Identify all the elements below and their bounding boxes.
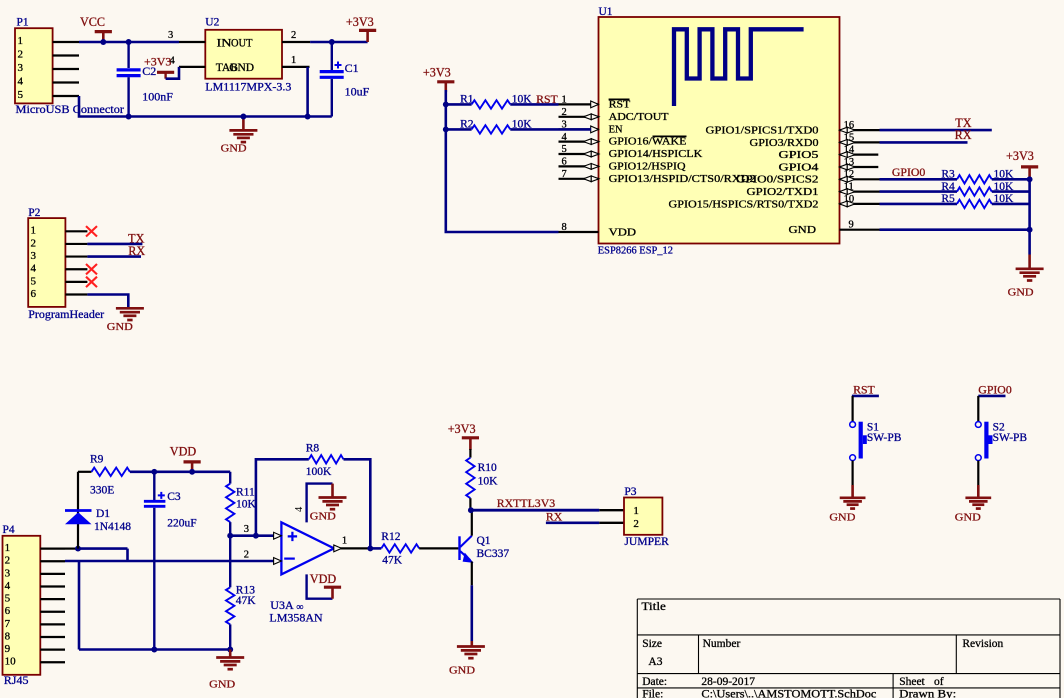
svg-text:7: 7 bbox=[562, 169, 567, 180]
svg-text:10K: 10K bbox=[994, 169, 1015, 181]
capacitor C1 bbox=[329, 39, 335, 45]
svg-text:9: 9 bbox=[849, 220, 854, 231]
svg-text:10K: 10K bbox=[994, 193, 1015, 205]
wire R11 to R13 bbox=[229, 536, 231, 588]
antenna meander inside U1 bbox=[674, 29, 804, 106]
U1 pin 13 GPIO4 bbox=[840, 166, 879, 168]
svg-text:5: 5 bbox=[31, 275, 37, 287]
svg-text:Q1: Q1 bbox=[477, 535, 491, 547]
U1 pin 2 ADC/TOUT bbox=[559, 116, 599, 118]
wire VDD rail bbox=[154, 470, 230, 473]
svg-text:2: 2 bbox=[291, 30, 296, 41]
svg-text:GPIO16/WAKE: GPIO16/WAKE bbox=[609, 137, 687, 148]
wire opamp non-inverting input bbox=[230, 534, 273, 537]
svg-text:RXTTL3V3: RXTTL3V3 bbox=[497, 496, 555, 510]
U1 pin 12 GPIO0/SPICS2 bbox=[840, 178, 880, 180]
svg-text:1: 1 bbox=[562, 95, 567, 106]
connector P1 MicroUSB bbox=[15, 28, 53, 103]
U1 pin 6 GPIO12/HSPIQ bbox=[559, 165, 599, 167]
svg-text:2: 2 bbox=[562, 107, 567, 118]
svg-text:10uF: 10uF bbox=[345, 84, 370, 98]
svg-text:LM1117MPX-3.3: LM1117MPX-3.3 bbox=[205, 80, 291, 94]
junction bus GND bbox=[1027, 227, 1033, 233]
svg-text:GND: GND bbox=[107, 321, 133, 333]
svg-text:330E: 330E bbox=[90, 485, 114, 497]
svg-text:U2: U2 bbox=[205, 17, 219, 29]
resistor R9 330E bbox=[78, 471, 92, 473]
svg-text:C3: C3 bbox=[167, 491, 181, 503]
svg-text:3: 3 bbox=[31, 250, 37, 262]
junction R13 bottom bbox=[227, 647, 233, 653]
svg-text:GND: GND bbox=[789, 225, 817, 236]
wire P2 pin6 to GND bbox=[87, 295, 128, 309]
svg-text:GPIO4: GPIO4 bbox=[779, 162, 820, 173]
overline RST bbox=[609, 98, 630, 100]
svg-text:Revision: Revision bbox=[962, 638, 1003, 650]
wire U2 OUT to +3V3 bbox=[310, 41, 368, 44]
resistor R13 47K bbox=[226, 587, 234, 624]
svg-text:RX: RX bbox=[955, 128, 972, 142]
junction output node bbox=[367, 545, 373, 551]
svg-text:C1: C1 bbox=[345, 61, 359, 75]
svg-text:1N4148: 1N4148 bbox=[94, 521, 131, 533]
U2 pin 2 OUT bbox=[282, 41, 310, 43]
svg-text:JUMPER: JUMPER bbox=[624, 534, 669, 548]
svg-text:R1: R1 bbox=[460, 94, 474, 106]
ground GND under U2 rail bbox=[242, 117, 245, 131]
svg-text:6: 6 bbox=[5, 605, 11, 617]
wire P1 pin5 to ground rail bbox=[79, 96, 129, 117]
svg-text:4: 4 bbox=[562, 132, 568, 143]
svg-text:R8: R8 bbox=[306, 442, 320, 454]
svg-text:P3: P3 bbox=[624, 486, 636, 498]
svg-text:GND: GND bbox=[955, 511, 981, 523]
svg-text:Drawn By:: Drawn By: bbox=[899, 689, 956, 698]
svg-text:+3V3: +3V3 bbox=[448, 422, 476, 436]
svg-text:GPIO5: GPIO5 bbox=[779, 150, 819, 161]
svg-text:220uF: 220uF bbox=[167, 518, 196, 530]
svg-text:U1: U1 bbox=[599, 6, 613, 18]
ground GND right of U1 bbox=[1028, 255, 1031, 269]
wire RXTTL3V3 bbox=[471, 509, 599, 512]
svg-text:GPIO12/HSPIQ: GPIO12/HSPIQ bbox=[609, 162, 686, 173]
svg-text:10K: 10K bbox=[236, 499, 257, 511]
wire from U1 pin11 bbox=[880, 190, 958, 193]
svg-text:ESP8266 ESP_12: ESP8266 ESP_12 bbox=[598, 246, 673, 257]
feedback wire to R8 bbox=[256, 459, 309, 535]
op-amp U3A LM358AN bbox=[281, 522, 334, 574]
wire step down to opamp input bbox=[126, 549, 129, 561]
svg-text:R11: R11 bbox=[236, 487, 255, 499]
junction feedback tap bbox=[253, 533, 259, 539]
svg-text:R10: R10 bbox=[478, 462, 497, 474]
ground GND at S1 bbox=[851, 485, 854, 498]
svg-text:4: 4 bbox=[31, 263, 37, 275]
wire U2 GND down to rail bbox=[306, 67, 309, 117]
U1 pin 16 GPIO1/SPICS1/TXD0 bbox=[840, 129, 880, 131]
svg-text:10: 10 bbox=[5, 656, 17, 668]
svg-text:3: 3 bbox=[5, 567, 11, 579]
svg-text:47K: 47K bbox=[382, 555, 403, 567]
svg-text:GPIO3/RXD0: GPIO3/RXD0 bbox=[750, 138, 819, 149]
svg-text:2: 2 bbox=[5, 555, 11, 567]
svg-text:R12: R12 bbox=[381, 531, 400, 543]
resistor R11 10K bbox=[229, 472, 231, 484]
svg-text:7: 7 bbox=[5, 618, 11, 630]
svg-text:1: 1 bbox=[342, 536, 347, 547]
svg-text:VDD: VDD bbox=[609, 227, 637, 238]
U1 pin 4 GPIO16/WAKE bbox=[559, 141, 599, 143]
wire P4 pin1 net bbox=[65, 547, 78, 549]
resistor R12 47K bbox=[370, 547, 381, 550]
U3A pin4 wire to GND bbox=[307, 484, 333, 523]
svg-text:R2: R2 bbox=[460, 119, 474, 131]
svg-text:3: 3 bbox=[168, 30, 173, 41]
svg-text:10K: 10K bbox=[512, 94, 533, 106]
U1 pin 7 GPIO13/HSPID/CTS0/RXD2 bbox=[559, 178, 599, 180]
U3A output pin 1 bbox=[334, 547, 370, 549]
svg-text:GPIO14/HSPICLK: GPIO14/HSPICLK bbox=[609, 149, 703, 160]
svg-text:6: 6 bbox=[31, 288, 37, 300]
svg-text:2: 2 bbox=[244, 549, 249, 560]
wire RX to P3 pin2 bbox=[546, 521, 599, 524]
connector P4 RJ45 bbox=[3, 536, 41, 675]
svg-text:RST: RST bbox=[536, 92, 558, 106]
ground GND at S2 bbox=[977, 485, 980, 498]
wire TX from U1 pin16 bbox=[880, 129, 992, 132]
junction R11 bottom bbox=[227, 533, 233, 539]
svg-text:+3V3: +3V3 bbox=[346, 15, 374, 29]
svg-text:+3V3: +3V3 bbox=[1006, 149, 1034, 163]
wire TAB to +3V3 bbox=[166, 67, 179, 79]
svg-text:R3: R3 bbox=[941, 169, 955, 181]
U1 pin 15 GPIO3/RXD0 bbox=[840, 141, 880, 143]
connector P2 ProgramHeader bbox=[28, 218, 65, 307]
U1 pin 5 GPIO14/HSPICLK bbox=[559, 153, 599, 155]
svg-text:4: 4 bbox=[294, 506, 305, 512]
svg-text:of: of bbox=[934, 676, 944, 688]
svg-text:P1: P1 bbox=[17, 17, 29, 29]
svg-text:Sheet: Sheet bbox=[899, 676, 925, 688]
U1 pin 10 GPIO15/HSPICS/RTS0/TXD2 bbox=[840, 203, 880, 205]
svg-text:SW-PB: SW-PB bbox=[993, 432, 1028, 444]
svg-text:GND: GND bbox=[310, 511, 336, 523]
svg-text:GPIO0/SPICS2: GPIO0/SPICS2 bbox=[736, 175, 819, 186]
no-connect X on P2 pin 1 bbox=[86, 226, 97, 236]
svg-text:OUT: OUT bbox=[231, 37, 253, 49]
wire to opamp inverting input bbox=[65, 560, 274, 563]
svg-text:EN: EN bbox=[609, 125, 623, 136]
U1 pin 3 EN bbox=[559, 128, 599, 130]
svg-text:1: 1 bbox=[633, 505, 639, 517]
resistor R2 10K bbox=[446, 128, 472, 131]
wire +3V3 down to VDD bbox=[446, 90, 559, 232]
svg-text:P2: P2 bbox=[28, 207, 40, 219]
svg-text:8: 8 bbox=[5, 630, 11, 642]
svg-text:+3V3: +3V3 bbox=[144, 55, 171, 69]
U3A pin8 wire to VDD bbox=[307, 574, 333, 598]
svg-text:SW-PB: SW-PB bbox=[867, 432, 902, 444]
wire Q1 emitter to GND bbox=[470, 585, 473, 641]
svg-text:VDD: VDD bbox=[310, 572, 337, 586]
svg-text:RST: RST bbox=[853, 382, 875, 396]
junction Q1 collector bbox=[468, 507, 474, 513]
U1 pin 9 GND bbox=[840, 229, 880, 231]
svg-text:GND: GND bbox=[1008, 287, 1034, 299]
regulator U2 LM1117 bbox=[205, 30, 282, 79]
resistor R1 10K bbox=[446, 103, 472, 106]
U2 pin 4 TAB bbox=[179, 66, 205, 68]
svg-text:BC337: BC337 bbox=[477, 548, 510, 560]
IC U1 ESP8266 body bbox=[599, 17, 840, 244]
junction R2 bbox=[443, 126, 449, 132]
svg-text:VCC: VCC bbox=[80, 15, 105, 29]
svg-text:100K: 100K bbox=[306, 466, 332, 478]
resistor R5 10K bbox=[957, 200, 992, 208]
no-connect X on P2 pin 4 bbox=[86, 264, 97, 274]
svg-text:RX: RX bbox=[546, 510, 563, 524]
diode D1 1N4148 bbox=[77, 472, 79, 549]
svg-text:4: 4 bbox=[5, 580, 11, 592]
svg-text:2: 2 bbox=[31, 237, 37, 249]
svg-text:GPIO0: GPIO0 bbox=[892, 165, 926, 179]
svg-text:C:\Users\..\AMSTOMOTT.SchDoc: C:\Users\..\AMSTOMOTT.SchDoc bbox=[701, 689, 876, 698]
svg-text:10K: 10K bbox=[512, 119, 533, 131]
wire U1 GND pin9 to bus bbox=[880, 228, 1030, 231]
svg-text:+3V3: +3V3 bbox=[423, 66, 451, 80]
svg-text:R5: R5 bbox=[941, 193, 955, 205]
wire P2 pin3 RX bbox=[87, 255, 141, 258]
svg-text:10K: 10K bbox=[994, 181, 1015, 193]
U1 pin 1 RST bbox=[559, 103, 599, 105]
capacitor C3 220uF bbox=[153, 472, 155, 500]
svg-text:Date:: Date: bbox=[642, 676, 667, 688]
svg-text:Number: Number bbox=[703, 638, 741, 650]
svg-text:4: 4 bbox=[18, 76, 24, 88]
svg-text:IN: IN bbox=[217, 37, 233, 49]
svg-text:ADC/TOUT: ADC/TOUT bbox=[609, 112, 670, 123]
wire RX from U1 pin15 bbox=[880, 141, 968, 144]
svg-text:GPIO15/HSPICS/RTS0/TXD2: GPIO15/HSPICS/RTS0/TXD2 bbox=[669, 199, 819, 210]
svg-text:Title: Title bbox=[641, 601, 666, 613]
wire bottom ground rail bbox=[79, 648, 230, 651]
svg-text:LM358AN: LM358AN bbox=[269, 610, 323, 624]
svg-text:R4: R4 bbox=[941, 181, 955, 193]
svg-text:ProgramHeader: ProgramHeader bbox=[28, 307, 104, 321]
svg-text:6: 6 bbox=[562, 157, 567, 168]
wire P1 pin1 to U2 IN bbox=[79, 41, 179, 44]
junction C3 bottom bbox=[151, 647, 157, 653]
svg-text:3: 3 bbox=[18, 62, 24, 74]
svg-text:10K: 10K bbox=[478, 475, 499, 487]
svg-text:RJ45: RJ45 bbox=[4, 673, 29, 687]
svg-text:GPIO13/HSPID/CTS0/RXD2: GPIO13/HSPID/CTS0/RXD2 bbox=[609, 174, 756, 185]
svg-text:GND: GND bbox=[829, 511, 855, 523]
U2 pin 3 IN bbox=[179, 41, 205, 43]
svg-text:100nF: 100nF bbox=[142, 89, 173, 103]
junction R1 bbox=[443, 101, 449, 107]
svg-text:VDD: VDD bbox=[170, 445, 197, 459]
wire GPIO0 from U1 pin12 bbox=[880, 178, 958, 181]
svg-text:9: 9 bbox=[5, 643, 11, 655]
svg-text:GND: GND bbox=[229, 62, 254, 74]
svg-text:GND: GND bbox=[449, 665, 475, 677]
svg-text:R9: R9 bbox=[90, 454, 104, 466]
resistor R8 100K bbox=[309, 455, 344, 463]
svg-text:File:: File: bbox=[642, 689, 663, 698]
svg-text:47K: 47K bbox=[236, 595, 256, 607]
wire P2 pin2 TX bbox=[87, 243, 142, 246]
capacitor C2 bbox=[126, 39, 132, 45]
ground GND at P2 bbox=[116, 307, 144, 310]
svg-text:D1: D1 bbox=[96, 508, 110, 520]
svg-text:2: 2 bbox=[633, 518, 639, 530]
svg-text:RST: RST bbox=[609, 100, 631, 111]
wire ground branch vertical bbox=[78, 561, 81, 650]
overline WAKE bbox=[653, 135, 687, 137]
svg-text:P4: P4 bbox=[3, 524, 15, 536]
U1 pin 14 GPIO5 bbox=[840, 154, 879, 156]
junction C3 top bbox=[151, 469, 157, 475]
svg-text:A3: A3 bbox=[648, 656, 662, 668]
svg-text:28-09-2017: 28-09-2017 bbox=[701, 676, 755, 688]
resistor R3 10K bbox=[957, 175, 992, 183]
svg-text:GPIO1/SPICS1/TXD0: GPIO1/SPICS1/TXD0 bbox=[706, 126, 819, 137]
svg-text:2: 2 bbox=[18, 49, 24, 61]
svg-text:GPIO2/TXD1: GPIO2/TXD1 bbox=[747, 187, 819, 198]
wire from U1 pin10 bbox=[880, 203, 958, 206]
wire right bus vertical bbox=[1028, 179, 1031, 254]
junction VDD bbox=[189, 469, 195, 475]
connector P3 JUMPER bbox=[624, 498, 662, 535]
svg-text:8: 8 bbox=[562, 222, 567, 233]
title block frame bbox=[637, 598, 1060, 600]
junction bus R3 bbox=[1027, 176, 1033, 182]
svg-text:RX: RX bbox=[128, 244, 145, 258]
junction VCC bbox=[100, 39, 106, 45]
U2 pin 1 GND bbox=[282, 66, 310, 68]
no-connect X on P2 pin 5 bbox=[86, 277, 97, 287]
ground rail under U2 bbox=[129, 115, 332, 118]
svg-text:5: 5 bbox=[562, 144, 567, 155]
svg-text:5: 5 bbox=[5, 593, 11, 605]
feedback wire from R8 to output bbox=[344, 459, 371, 548]
svg-text:GND: GND bbox=[221, 143, 247, 155]
ground GND at U3A pin4 bbox=[331, 484, 334, 498]
ground GND at Q1 bbox=[470, 641, 473, 647]
U1 pin 11 GPIO2/TXD1 bbox=[840, 191, 880, 193]
svg-text:GPIO0: GPIO0 bbox=[978, 382, 1012, 396]
U1 pin 8 VDD bbox=[559, 231, 599, 233]
resistor R4 10K bbox=[957, 187, 992, 195]
svg-text:1: 1 bbox=[31, 225, 37, 237]
svg-text:MicroUSB Connector: MicroUSB Connector bbox=[16, 102, 125, 116]
svg-text:GND: GND bbox=[209, 679, 235, 691]
svg-text:Size: Size bbox=[642, 638, 662, 650]
ground GND bottom rail bbox=[229, 650, 232, 658]
svg-text:1: 1 bbox=[291, 55, 296, 66]
svg-text:3: 3 bbox=[244, 524, 249, 535]
transistor Q1 BC337 bbox=[458, 536, 460, 560]
svg-text:1: 1 bbox=[5, 542, 11, 554]
junction P4 pin1 bbox=[75, 546, 81, 552]
svg-text:1: 1 bbox=[18, 35, 24, 47]
svg-text:5: 5 bbox=[18, 89, 24, 101]
